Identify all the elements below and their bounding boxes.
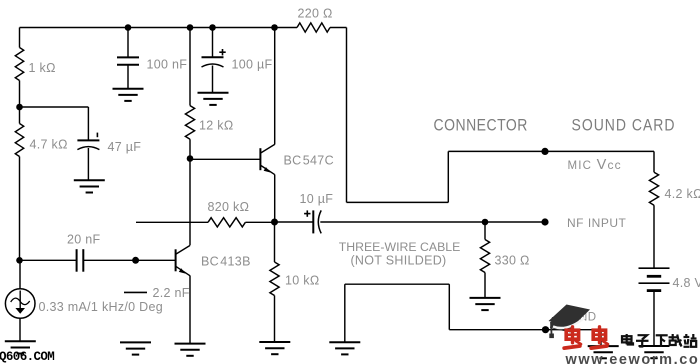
wire base node to BC413 base xyxy=(136,259,176,261)
svg-text:www.eeworm.com: www.eeworm.com xyxy=(565,352,700,364)
label mic vcc xyxy=(568,157,622,173)
svg-text:(NOT SHILDED): (NOT SHILDED) xyxy=(350,254,446,268)
label cable line1 xyxy=(339,240,461,254)
capacitor C 10uF xyxy=(300,192,334,233)
wire BC547 emitter xyxy=(274,175,276,223)
wire base node to BC547 base xyxy=(190,158,260,160)
wire 4.2k to battery xyxy=(653,205,655,268)
ground 100uF xyxy=(198,93,229,105)
wire rail to 100nF xyxy=(127,28,129,58)
svg-text:4.7 kΩ: 4.7 kΩ xyxy=(30,138,68,152)
resistor R 820kohm xyxy=(208,200,250,227)
wire top rail xyxy=(20,27,347,29)
svg-text:0.33 mA/1 kHz/0 Deg: 0.33 mA/1 kHz/0 Deg xyxy=(39,300,164,314)
node mic pin xyxy=(541,148,548,155)
svg-text:MIC Vcc: MIC Vcc xyxy=(568,157,622,173)
watermark bug char 1 xyxy=(564,327,581,348)
wire 820k left stub xyxy=(136,221,208,223)
node gnd pin xyxy=(542,326,549,333)
ground current source xyxy=(5,341,36,353)
ground 2.2nF xyxy=(120,342,151,354)
wire mic vcc path xyxy=(347,151,655,202)
svg-text:220 Ω: 220 Ω xyxy=(298,7,333,21)
ground BC413 emitter xyxy=(175,344,206,356)
wire 20nF to base node xyxy=(83,259,135,261)
svg-text:4.2 kΩ: 4.2 kΩ xyxy=(665,187,700,201)
svg-text:12 kΩ: 12 kΩ xyxy=(199,119,233,133)
ground 10k xyxy=(259,342,290,354)
wire rail to 100uF xyxy=(212,28,214,58)
svg-text:SOUND CARD: SOUND CARD xyxy=(572,117,676,135)
ground gnd left xyxy=(329,342,360,354)
wire 10k to ground xyxy=(274,296,276,343)
svg-text:20 nF: 20 nF xyxy=(67,233,101,247)
capacitor C 100nF xyxy=(117,57,187,88)
capacitor C 10uF plus xyxy=(304,210,310,216)
label sound card xyxy=(572,117,676,135)
wire 4.7k down to source node xyxy=(19,157,21,261)
wire BC413 emitter xyxy=(189,276,191,344)
watermark Q606.COM xyxy=(0,350,54,364)
wire source node to current source xyxy=(19,260,21,288)
wire gnd to ground xyxy=(601,330,603,346)
label cable line2 xyxy=(350,254,446,268)
wire gnd path xyxy=(345,284,601,342)
svg-text:1 kΩ: 1 kΩ xyxy=(29,61,56,75)
node BC413 base xyxy=(132,257,139,264)
node left mid xyxy=(16,104,23,111)
watermark text dianzi xyxy=(622,334,649,347)
wire rail to 12k xyxy=(189,28,191,106)
capacitor C 47uF xyxy=(77,133,141,181)
ground gnd net xyxy=(588,346,619,358)
wire source node to 20nF xyxy=(20,259,77,261)
label gnd xyxy=(570,312,597,324)
svg-text:2.2 nF: 2.2 nF xyxy=(153,286,190,300)
label connector xyxy=(434,117,528,135)
capacitor C 2.2nF xyxy=(124,286,190,300)
svg-text:BC 413B: BC 413B xyxy=(201,255,251,269)
node 100uF rail xyxy=(209,24,216,31)
svg-text:NF INPUT: NF INPUT xyxy=(567,216,627,230)
wire output to 10uF xyxy=(275,221,314,223)
resistor R 4.2kohm xyxy=(649,151,700,205)
svg-text:100 nF: 100 nF xyxy=(147,58,188,72)
ground 330 xyxy=(470,298,501,310)
resistor R 220ohm xyxy=(297,7,333,33)
wire 820k to output node xyxy=(245,221,274,223)
svg-text:10 kΩ: 10 kΩ xyxy=(285,274,319,288)
node collector rail xyxy=(271,24,278,31)
wire BC413 collector xyxy=(189,159,191,246)
wire from 220ohm down to connector xyxy=(346,28,348,203)
svg-text:THREE-WIRE CABLE: THREE-WIRE CABLE xyxy=(339,240,461,254)
wire 1k to 4.7k xyxy=(19,81,21,124)
svg-text:820 kΩ: 820 kΩ xyxy=(208,200,250,214)
wire output to 10k xyxy=(274,222,276,262)
node 12k bottom xyxy=(187,155,194,162)
node source top xyxy=(16,257,23,264)
watermark graduation cap xyxy=(549,305,591,339)
wire 12k to base node xyxy=(189,139,191,158)
watermark www.eeworm.com xyxy=(565,352,700,364)
watermark bug char 2 xyxy=(591,327,608,348)
ground 47uF xyxy=(74,180,105,192)
capacitor C 100uF plus xyxy=(219,49,225,55)
node 12k rail xyxy=(187,24,194,31)
wire 10uF to NF pin xyxy=(320,221,545,223)
resistor R 12kohm xyxy=(185,106,233,140)
svg-text:Q606.COM: Q606.COM xyxy=(0,350,54,364)
node 330 top xyxy=(482,219,489,226)
label nf input xyxy=(567,216,627,230)
svg-text:100 µF: 100 µF xyxy=(232,58,273,72)
wire BC547 collector xyxy=(274,28,276,145)
resistor R 1kohm xyxy=(15,48,55,81)
resistor R 10kohm xyxy=(270,262,320,296)
resistor R 330ohm xyxy=(480,222,529,298)
ground 100nF xyxy=(113,89,144,101)
svg-text:330 Ω: 330 Ω xyxy=(495,253,530,267)
svg-text:BC 547C: BC 547C xyxy=(284,154,334,168)
svg-text:4.8 V: 4.8 V xyxy=(673,276,700,290)
capacitor C 100uF xyxy=(202,57,273,92)
node output xyxy=(271,219,278,226)
svg-text:CONNECTOR: CONNECTOR xyxy=(434,117,528,135)
wire left rail upper xyxy=(19,28,21,48)
capacitor C 20nF xyxy=(67,233,101,272)
battery V 4.8V xyxy=(639,268,700,290)
current source I1 xyxy=(5,289,163,319)
ground battery xyxy=(639,346,670,358)
resistor R 4.7kohm xyxy=(15,124,67,157)
watermark text xiazaizhan xyxy=(656,334,697,347)
svg-text:47 µF: 47 µF xyxy=(108,140,142,154)
node nf pin xyxy=(541,218,548,225)
node 100nF rail xyxy=(125,24,132,31)
svg-text:10 µF: 10 µF xyxy=(300,192,334,206)
transistor Q BC413B xyxy=(176,246,251,276)
wire to 47uF xyxy=(20,107,89,140)
wire current source to ground xyxy=(19,318,21,341)
wire battery to ground xyxy=(653,291,655,346)
transistor Q BC547C xyxy=(260,144,334,174)
